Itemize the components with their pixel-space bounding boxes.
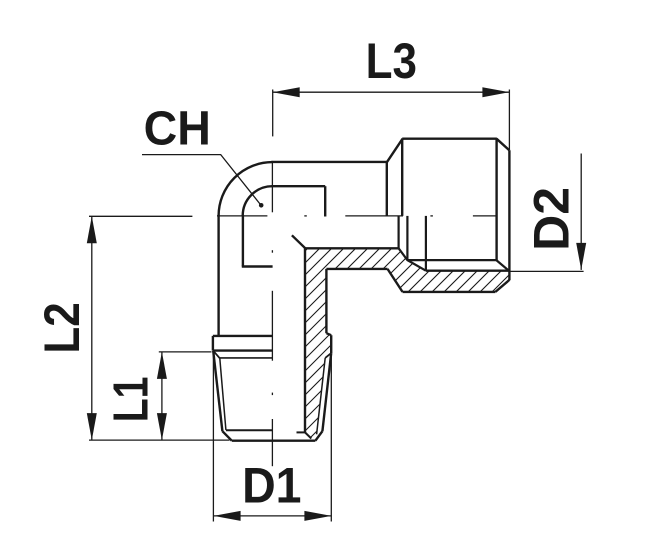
elbow bore inner arc bbox=[243, 186, 273, 216]
tip chamfer right bbox=[315, 431, 322, 441]
collar top edge bbox=[213, 335, 273, 337]
thread tip face left bbox=[226, 429, 273, 431]
port mouth chamfer bbox=[497, 260, 510, 271]
female thread end wall bbox=[398, 216, 400, 248]
female thread root line bbox=[426, 270, 510, 272]
D1 arrow right bbox=[304, 511, 331, 521]
female thread crest line bbox=[407, 259, 496, 261]
dimension L1 line bbox=[161, 352, 163, 440]
thread crest taper left bbox=[213, 351, 222, 431]
dimension D1 line bbox=[214, 515, 332, 517]
collar right edge bbox=[330, 335, 332, 353]
right arm bore wall bbox=[305, 247, 399, 249]
collar left edge bbox=[212, 336, 214, 351]
L3 arrow right bbox=[482, 87, 509, 97]
bore corner chamfer bbox=[292, 235, 305, 248]
thread start chamfer left bbox=[213, 351, 220, 359]
svg-text:L3: L3 bbox=[366, 33, 417, 89]
svg-text:D2: D2 bbox=[524, 187, 580, 251]
svg-text:D1: D1 bbox=[242, 458, 301, 514]
vertical tube outer right wall bbox=[325, 269, 327, 333]
svg-text:L2: L2 bbox=[34, 302, 90, 353]
vertical centerline bbox=[271, 162, 273, 213]
tube outer wall below bbox=[326, 268, 387, 270]
thread end face bbox=[232, 440, 316, 442]
thread tip face right bbox=[297, 431, 306, 433]
L1 arrow top bbox=[157, 352, 167, 379]
thread root runout line bbox=[220, 357, 273, 359]
counterbore wall bbox=[324, 186, 326, 216]
D1 extension right bbox=[330, 355, 332, 522]
bore top ledge bbox=[271, 185, 325, 187]
hex nut top edge bbox=[402, 137, 497, 139]
tip chamfer left bbox=[222, 431, 231, 441]
thread crest taper right bbox=[322, 353, 331, 431]
nut top-right chamfer bbox=[497, 139, 510, 151]
elbow body top edge bbox=[271, 161, 388, 163]
svg-text:L1: L1 bbox=[104, 377, 158, 423]
CH leader dot bbox=[259, 203, 264, 208]
L2/L1 extension bottom bbox=[89, 439, 230, 441]
L2 arrow top bbox=[87, 216, 97, 243]
tube-to-nut transition diagonal bbox=[388, 269, 403, 292]
dimension D2 line bbox=[580, 154, 582, 270]
nut right facet line bbox=[495, 139, 497, 261]
L1 arrow bottom bbox=[157, 413, 167, 440]
L2 arrow bottom bbox=[87, 413, 97, 440]
bore bottom ledge bbox=[242, 265, 273, 267]
L3 arrow left bbox=[273, 87, 300, 97]
dimension L2 line bbox=[91, 216, 93, 440]
elbow body left edge bbox=[217, 215, 219, 337]
L3 extension left bbox=[272, 90, 274, 137]
female thread crest wall bbox=[406, 216, 408, 260]
nut top-left chamfer bbox=[387, 139, 403, 163]
nut section bottom edge bbox=[403, 291, 496, 293]
svg-text:CH: CH bbox=[144, 102, 211, 156]
D1 arrow left bbox=[214, 511, 241, 521]
collar step bbox=[326, 333, 331, 335]
nut left facet line bbox=[401, 139, 403, 216]
bore exit chamfer bbox=[305, 432, 311, 438]
D2 extension bottom bbox=[511, 270, 584, 272]
thread root taper right bbox=[317, 358, 326, 434]
thread runout line bbox=[213, 349, 273, 351]
L1 extension top bbox=[159, 351, 212, 353]
thread start chamfer right bbox=[325, 353, 331, 358]
vertical bore right wall bbox=[304, 248, 306, 432]
nut bottom-right chamfer bbox=[495, 280, 509, 292]
thread root taper left bbox=[220, 358, 226, 430]
D1 extension left bbox=[212, 352, 214, 522]
L3 extension right bbox=[508, 90, 510, 151]
CH leader line bbox=[142, 155, 261, 206]
female thread root wall bbox=[425, 216, 427, 271]
horizontal centerline bbox=[217, 215, 267, 217]
dimension L3 line bbox=[273, 91, 510, 93]
bore left wall bbox=[242, 215, 244, 267]
L2 extension top bbox=[89, 215, 192, 217]
elbow body outer arc bbox=[219, 162, 273, 216]
nut left face bbox=[386, 162, 388, 216]
nut right face bbox=[508, 150, 510, 280]
thread runout cone bbox=[399, 248, 426, 270]
D2 arrow bottom bbox=[576, 243, 586, 270]
